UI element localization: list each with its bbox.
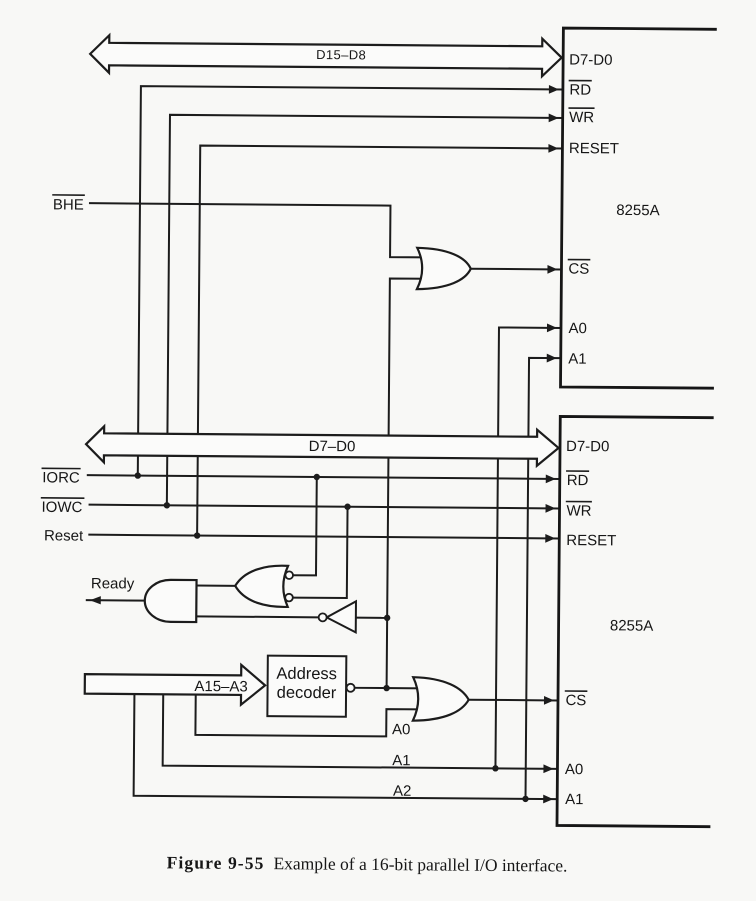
wire OR2 output to U2 CS — [469, 699, 557, 702]
or-gate G2 (U2 CS) — [413, 677, 469, 721]
wire A1 net: bus tap to U2 A0 — [163, 694, 557, 769]
svg-text:A0: A0 — [568, 320, 586, 337]
svg-text:Reset: Reset — [44, 527, 84, 544]
svg-text:8255A: 8255A — [610, 617, 654, 634]
chip U1 8255A outline — [561, 28, 716, 388]
wire NOR output to AND top input — [197, 585, 236, 587]
wire AND output Ready — [87, 599, 147, 601]
wire OR1 output to U1 CS — [471, 268, 561, 271]
junction IOWC/NOR — [344, 504, 350, 510]
arrowhead U2 CS — [544, 696, 554, 705]
arrowhead U1 WR — [549, 113, 559, 122]
svg-text:Ready: Ready — [91, 575, 135, 592]
arrowhead U1 A0 — [547, 323, 557, 332]
junction IOWC/WR — [164, 502, 170, 508]
chip U2 8255A outline — [557, 416, 712, 826]
wire IORC row to U2 RD — [88, 475, 559, 479]
svg-text:RD: RD — [567, 472, 589, 489]
wire A0 net: bus tap to OR2 bottom input — [195, 695, 422, 737]
wire inverter input from decoder net — [356, 617, 387, 619]
wire A2 branch up to U1 A1 — [526, 358, 560, 799]
wire IOWC branch down to NOR input — [292, 506, 347, 598]
svg-text:decoder: decoder — [277, 684, 337, 702]
bus D15-D8 (top, double arrow) — [90, 35, 562, 76]
wire Reset row to U2 RESET — [89, 535, 558, 539]
junction IORC/NOR — [314, 474, 320, 480]
junction decoder net / inverter — [384, 615, 390, 621]
svg-text:WR: WR — [569, 109, 594, 126]
svg-text:RESET: RESET — [566, 532, 616, 549]
svg-text:BHE: BHE — [53, 196, 84, 213]
svg-text:A0: A0 — [392, 721, 410, 738]
wire IORC branch down to NOR input — [292, 477, 316, 576]
svg-text:D7-D0: D7-D0 — [566, 438, 609, 455]
wire IORC branch up to U1 RD — [138, 86, 562, 479]
bus D7-D0 (middle, double arrow) — [86, 426, 559, 466]
arrowhead U1 RESET — [548, 144, 558, 153]
junction decoder net / OR2 — [383, 685, 389, 691]
svg-text:A15–A3: A15–A3 — [194, 678, 248, 695]
or-gate G1 (U1 CS) — [417, 248, 471, 290]
wire inverter output to AND bottom input — [196, 615, 318, 618]
and-gate G5 (Ready, pointing left) — [145, 580, 197, 622]
wire IOWC branch up to U1 WR — [167, 115, 562, 509]
svg-text:A1: A1 — [392, 752, 410, 769]
wire IOWC row to U2 WR — [90, 505, 559, 509]
svg-text:D7-D0: D7-D0 — [569, 52, 612, 69]
decoder output bubble — [347, 684, 355, 692]
svg-text:RD: RD — [569, 82, 591, 99]
svg-text:Figure 9-55Example of a 16-bit: Figure 9-55Example of a 16-bit parallel … — [167, 852, 568, 875]
wire A2 net: bus tap to U2 A1 — [134, 694, 557, 799]
wire decoder output to OR2 top input — [355, 687, 422, 690]
svg-text:8255A: 8255A — [616, 202, 660, 219]
bus A15-A3 (address, single arrow) — [85, 664, 266, 705]
svg-text:CS: CS — [565, 692, 586, 709]
svg-text:A1: A1 — [568, 351, 586, 368]
wire decoder net up to OR1 bottom input — [387, 278, 426, 688]
svg-text:D7–D0: D7–D0 — [309, 438, 356, 455]
negative-OR gate G3 (pointing left) — [235, 565, 288, 607]
arrowhead U1 RD — [549, 85, 559, 94]
JUNCTION DOTS — [132, 472, 531, 802]
G4 output bubble — [319, 613, 327, 621]
svg-text:IORC: IORC — [42, 469, 80, 486]
G3 input bubble top — [285, 571, 293, 579]
junction IORC/RD — [135, 472, 141, 478]
inverter G4 (pointing left) — [327, 601, 356, 632]
wire A1 branch up to U1 A0 — [495, 327, 560, 768]
arrowhead U1 CS — [547, 265, 557, 274]
wire Reset branch up to U1 RESET — [197, 146, 561, 539]
G3 input bubble bottom — [285, 594, 293, 602]
svg-text:IOWC: IOWC — [41, 499, 82, 516]
arrowhead U2 A0 — [543, 764, 553, 773]
junction A2 net — [522, 796, 528, 802]
svg-text:A0: A0 — [565, 761, 583, 778]
WIRES LAYER — [85, 86, 562, 799]
arrowhead Ready (left) — [90, 596, 101, 604]
junction Reset/RESET — [194, 532, 200, 538]
arrowhead U2 RESET — [545, 534, 555, 543]
svg-text:Address: Address — [276, 665, 337, 683]
arrowhead U2 A1 — [543, 795, 553, 804]
wire BHE to OR1 top input — [90, 203, 426, 257]
junction A1 net — [492, 765, 498, 771]
ARROWHEADS — [88, 81, 559, 803]
svg-text:RESET: RESET — [569, 140, 619, 157]
address decoder U3 — [267, 656, 346, 717]
svg-text:A2: A2 — [393, 783, 411, 800]
svg-text:A1: A1 — [565, 791, 583, 808]
svg-text:D15–D8: D15–D8 — [316, 47, 366, 62]
arrowhead U2 RD — [546, 474, 556, 483]
svg-text:WR: WR — [566, 503, 591, 520]
arrowhead U2 WR — [546, 504, 556, 513]
svg-text:CS: CS — [568, 261, 589, 278]
arrowhead U1 A1 — [547, 354, 557, 363]
